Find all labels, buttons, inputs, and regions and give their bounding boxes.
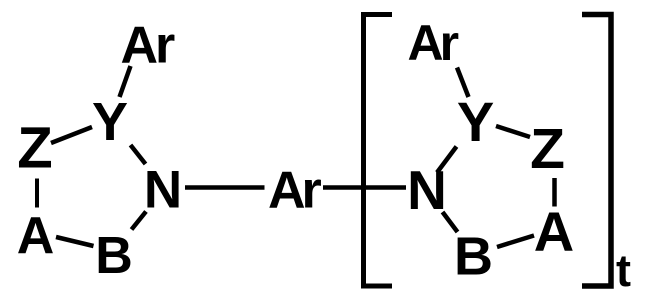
svg-text:Ar: Ar <box>268 162 322 220</box>
bond Y–Z (right) <box>496 126 530 137</box>
svg-text:B: B <box>454 227 493 287</box>
bracket left [ <box>364 15 393 287</box>
svg-text:Y: Y <box>457 90 494 153</box>
bond N–B (right) <box>443 212 458 232</box>
bond Y–N (right) <box>437 147 457 173</box>
bond A–B (left) <box>56 237 94 246</box>
bracket right ] <box>582 15 611 287</box>
svg-text:A: A <box>534 200 574 263</box>
bond B–A (right) <box>497 236 534 248</box>
svg-text:A: A <box>17 207 55 265</box>
bond Ar–Y (left) <box>120 66 131 97</box>
svg-text:Z: Z <box>17 116 52 181</box>
bond Y–N (left) <box>131 145 146 164</box>
svg-text:B: B <box>95 227 133 285</box>
bond Z–A (right) <box>552 178 557 207</box>
svg-text:N: N <box>144 161 182 220</box>
svg-text:Ar: Ar <box>408 15 459 71</box>
bond Z–A (left) <box>35 179 39 208</box>
svg-text:Z: Z <box>530 117 565 181</box>
bond Ar–Y (right) <box>457 68 469 98</box>
svg-text:Y: Y <box>92 92 128 152</box>
bond Ar–N (crosses left bracket) <box>323 185 406 190</box>
svg-text:t: t <box>616 245 631 296</box>
bond B–N (left) <box>132 212 147 230</box>
bond N–Ar (central single bond) <box>185 185 265 190</box>
bond Z–Y (left) <box>51 127 92 143</box>
